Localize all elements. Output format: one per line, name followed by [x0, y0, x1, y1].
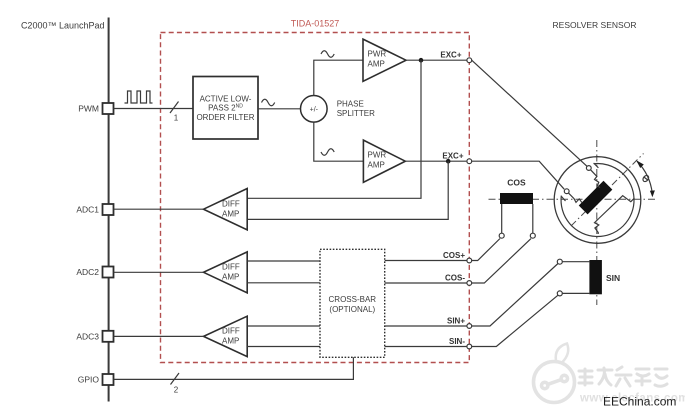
- wire GPIO to crossbar: [114, 357, 354, 379]
- theta arrowhead top: [636, 160, 644, 168]
- PWM pulse waveform icon: [125, 91, 153, 103]
- op-amp PWR AMP A1: [363, 39, 406, 81]
- terminal COS left: [499, 233, 504, 238]
- resolver outer circle: [554, 157, 641, 244]
- port P6 SIN- open circle: [467, 344, 472, 349]
- bus width slash 2: [171, 373, 180, 385]
- wire T2 zigzag to rotor: [568, 193, 582, 203]
- pin ADC2: [103, 267, 114, 278]
- port P4 COS- open circle: [467, 281, 472, 286]
- wire EXC+ bottom to rotor terminal T2: [472, 161, 565, 189]
- svg-text:COS: COS: [507, 178, 526, 188]
- junction J2: [446, 159, 451, 164]
- terminal SIN bottom: [557, 291, 562, 296]
- crossbar U3 box (optional): [320, 249, 385, 357]
- summer U2 (phase splitter input): [301, 96, 328, 123]
- terminal COS right: [530, 233, 535, 238]
- svg-text:DIFF: DIFF: [222, 327, 240, 336]
- wire DIFF AMP3 output to ADC3: [114, 335, 204, 337]
- wire feedback J1 to DIFF AMP1 input1: [247, 60, 421, 198]
- svg-text:AMP: AMP: [368, 60, 385, 69]
- wire DIFF AMP2 input1 to crossbar: [247, 260, 320, 262]
- resolver rotor axis diagonal (dash-dot): [571, 154, 644, 227]
- svg-text:EEChina.com: EEChina.com: [603, 395, 676, 409]
- svg-text:DIFF: DIFF: [222, 263, 240, 272]
- wire crossbar to SIN- port: [385, 346, 467, 348]
- svg-text:1: 1: [174, 114, 179, 123]
- svg-text:ACTIVE LOW-: ACTIVE LOW-: [200, 94, 252, 103]
- wire COS+ port to COS winding: [472, 239, 500, 261]
- sine symbol S1: [262, 99, 275, 106]
- junction J1: [419, 58, 424, 63]
- svg-text:DIFF: DIFF: [222, 200, 240, 209]
- sine symbol S3: [321, 149, 334, 156]
- port P3 COS+ open circle: [467, 258, 472, 263]
- op-amp DIFF AMP A5: [204, 316, 248, 356]
- wire rotor return diagonal with right zigzag: [599, 196, 635, 219]
- inductor SIN winding: [589, 260, 602, 294]
- port P2 EXC+ open circle: [467, 159, 472, 164]
- svg-text:AMP: AMP: [222, 337, 239, 346]
- svg-text:PHASE: PHASE: [337, 99, 364, 108]
- wire summer to PWR AMP1: [314, 60, 363, 95]
- op-amp DIFF AMP A4: [204, 252, 248, 293]
- filter U1 box: [193, 77, 258, 140]
- svg-text:PWM: PWM: [78, 104, 99, 114]
- wire DIFF AMP2 output to ADC2: [114, 271, 204, 273]
- svg-text:ADC1: ADC1: [76, 205, 99, 215]
- svg-text:AMP: AMP: [222, 273, 239, 282]
- bus width slash 1: [170, 102, 179, 114]
- svg-text:2: 2: [174, 386, 179, 395]
- watermark logo circle: [534, 344, 575, 403]
- svg-text:PWR: PWR: [368, 151, 387, 160]
- wire crossbar to COS+ port: [385, 260, 467, 262]
- svg-text:TIDA-01527: TIDA-01527: [291, 19, 340, 29]
- pin ADC1: [103, 204, 114, 215]
- node theta label: [642, 174, 650, 182]
- rotor terminal T1: [586, 166, 591, 171]
- wire DIFF AMP3 input2 to crossbar: [247, 346, 320, 348]
- svg-text:ADC3: ADC3: [76, 331, 99, 341]
- op-amp DIFF AMP A3: [204, 189, 248, 230]
- svg-text:(OPTIONAL): (OPTIONAL): [329, 305, 375, 314]
- pin PWM: [103, 103, 114, 114]
- resolver centerline horizontal (dash-dot): [489, 198, 658, 200]
- wire bottom squiggle to stator arc: [595, 219, 599, 235]
- op-amp PWR AMP A2: [363, 140, 405, 182]
- terminal SIN top: [557, 259, 562, 264]
- wire crossbar to SIN+ port: [385, 325, 467, 327]
- svg-text:ORDER FILTER: ORDER FILTER: [196, 113, 254, 122]
- wire PWR AMP2 output to EXC+ port: [405, 160, 466, 162]
- svg-text:AMP: AMP: [222, 210, 239, 219]
- wire stator hook top: [594, 163, 599, 168]
- resolver centerline vertical (dash-dot): [596, 140, 598, 305]
- wire COS winding lead left: [501, 204, 503, 233]
- svg-text:COS+: COS+: [443, 251, 465, 260]
- svg-text:COS-: COS-: [445, 274, 465, 283]
- svg-text:AMP: AMP: [368, 161, 385, 170]
- svg-text:C2000™ LaunchPad: C2000™ LaunchPad: [21, 21, 105, 31]
- theta arrowhead bottom: [650, 190, 655, 197]
- wire COS- port to COS winding: [472, 239, 531, 283]
- svg-text:EXC+: EXC+: [442, 151, 463, 160]
- svg-text:+/-: +/-: [310, 107, 319, 114]
- wire filter to summer: [258, 108, 301, 110]
- resolver stator inner arc: [561, 163, 634, 236]
- inductor COS winding: [500, 193, 533, 204]
- wire SIN+ port to SIN winding: [472, 264, 558, 327]
- wire stator hook left: [562, 197, 566, 202]
- svg-text:CROSS-BAR: CROSS-BAR: [329, 295, 377, 304]
- wire SIN winding lead bottom: [562, 292, 589, 294]
- wire SIN- port to SIN winding: [472, 295, 558, 346]
- TIDA-01527 dashed boundary box: [161, 33, 470, 363]
- rotor terminal T2: [564, 189, 569, 194]
- wire EXC+ top to rotor terminal T1: [472, 60, 587, 166]
- wire DIFF AMP1 output to ADC1: [114, 208, 204, 210]
- wire PWR AMP1 output to EXC+ port: [406, 59, 467, 61]
- svg-text:SPLITTER: SPLITTER: [337, 109, 375, 118]
- wire SIN winding lead top: [562, 261, 589, 263]
- watermark CJK text (ghost): [579, 367, 667, 386]
- svg-text:SIN+: SIN+: [447, 317, 465, 326]
- svg-text:SIN-: SIN-: [449, 337, 465, 346]
- wire LaunchPad rail: [108, 18, 110, 402]
- wire PWM to filter: [114, 108, 194, 110]
- wire DIFF AMP3 input1 to crossbar: [247, 325, 320, 327]
- svg-text:GPIO: GPIO: [78, 375, 100, 385]
- resolver rotor winding (black rect rotated): [579, 181, 613, 215]
- wire feedback J2 to DIFF AMP1 input2: [247, 161, 448, 219]
- wire crossbar to COS- port: [385, 282, 467, 284]
- pin GPIO: [103, 374, 114, 385]
- port P1 EXC+ open circle: [467, 58, 472, 63]
- svg-text:RESOLVER SENSOR: RESOLVER SENSOR: [553, 20, 637, 30]
- theta dimension arc: [637, 161, 652, 193]
- sine symbol S2: [321, 51, 334, 58]
- wire DIFF AMP2 input2 to crossbar: [247, 282, 320, 284]
- port P5 SIN+ open circle: [467, 324, 472, 329]
- wire summer to PWR AMP2: [314, 122, 364, 161]
- svg-text:EXC+: EXC+: [440, 51, 461, 60]
- svg-text:SIN: SIN: [606, 273, 620, 283]
- svg-text:PWR: PWR: [368, 50, 387, 59]
- wire T1 squiggle to rotor: [591, 170, 600, 188]
- wire COS winding lead right: [532, 204, 534, 233]
- pin ADC3: [103, 331, 114, 342]
- svg-text:ADC2: ADC2: [76, 267, 99, 277]
